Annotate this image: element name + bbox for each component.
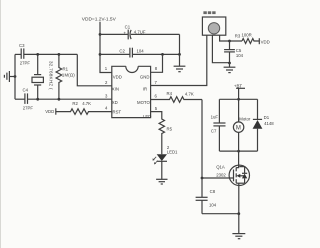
node C5 top: [228, 40, 231, 43]
IR receiver: [202, 11, 225, 35]
svg-text:104: 104: [209, 203, 217, 208]
node crystal bottom: [36, 98, 39, 101]
diode D1: [253, 99, 275, 151]
node gnd join: [178, 53, 181, 56]
resistor R2: [56, 101, 112, 114]
svg-text:Q1A: Q1A: [216, 164, 225, 169]
svg-text:M: M: [236, 126, 241, 132]
svg-text:R1: R1: [63, 66, 69, 71]
svg-text:XIN: XIN: [112, 87, 119, 92]
node C5 bottom: [228, 62, 231, 65]
svg-text:100R: 100R: [242, 33, 252, 38]
svg-text:4.7UF: 4.7UF: [134, 29, 146, 34]
wire motor bottom rail: [219, 150, 257, 152]
ground (C1 C2): [174, 54, 186, 71]
capacitor C3: [19, 43, 30, 66]
resistor R4: [151, 91, 203, 102]
node motor bottom: [237, 150, 240, 153]
svg-text:VDD: VDD: [45, 109, 54, 114]
svg-text:8: 8: [155, 66, 158, 71]
ground (C5): [224, 63, 236, 73]
node R1 bottom: [58, 98, 61, 101]
wire xin drop: [77, 54, 112, 85]
wire receiver leg3: [220, 35, 242, 41]
wire pin8 link: [151, 54, 163, 72]
wire bottom osc: [15, 98, 25, 100]
svg-text:C2: C2: [119, 48, 125, 53]
svg-text:4.7K: 4.7K: [82, 101, 91, 106]
capacitor C4: [23, 87, 34, 110]
wire receiver leg2: [212, 35, 229, 63]
LED LED1: [153, 145, 178, 179]
svg-text:MOTO: MOTO: [137, 100, 150, 105]
svg-text:6: 6: [155, 93, 158, 98]
svg-text:C8: C8: [210, 189, 216, 194]
svg-text:GND: GND: [140, 74, 150, 79]
svg-text:VDD: VDD: [113, 74, 122, 79]
svg-text:VDD=1.2V-1.5V: VDD=1.2V-1.5V: [82, 17, 117, 23]
capacitor C1: [100, 24, 180, 39]
ground (Q1 source): [232, 214, 245, 239]
wire C1 to gnd: [179, 34, 181, 54]
left edge border: [0, 0, 2, 248]
svg-text:4: 4: [105, 106, 108, 111]
node C1 tap: [99, 33, 102, 36]
svg-text:1uF: 1uF: [211, 115, 219, 120]
svg-text:Motor: Motor: [239, 116, 251, 121]
power VDD (R3): [259, 38, 269, 44]
svg-text:27PF: 27PF: [23, 105, 34, 110]
svg-text:27PF: 27PF: [20, 61, 31, 66]
svg-text:VDD: VDD: [261, 39, 270, 44]
svg-text:LED1: LED1: [167, 150, 178, 155]
svg-text:R2: R2: [72, 101, 78, 106]
transistor Q1A: [216, 151, 249, 185]
wire VDD rail: [100, 22, 112, 73]
svg-text:1M(Ω): 1M(Ω): [62, 73, 75, 78]
svg-text:5: 5: [155, 106, 158, 111]
svg-text:C4: C4: [23, 87, 29, 92]
node R1 top: [58, 53, 61, 56]
svg-text:LED: LED: [143, 114, 151, 119]
svg-text:7: 7: [155, 80, 158, 85]
svg-text:1: 1: [105, 66, 108, 71]
node motor top: [237, 98, 240, 101]
node gate tee: [201, 177, 204, 180]
node crystal top: [36, 53, 39, 56]
capacitor C5: [224, 41, 244, 63]
node source bottom: [237, 212, 240, 215]
svg-text:32.768KHZ (: 32.768KHZ (: [49, 61, 54, 90]
resistor R5: [151, 112, 173, 155]
svg-text:R3: R3: [235, 34, 241, 39]
wire top osc: [15, 53, 21, 55]
svg-text:104: 104: [236, 53, 244, 58]
resistor R3: [235, 33, 259, 44]
capacitor C2: [100, 48, 180, 58]
svg-text:RST: RST: [113, 109, 122, 114]
motor M: [233, 99, 250, 151]
wire source down: [238, 183, 240, 213]
svg-text:XD: XD: [112, 100, 118, 105]
ground (oscillator, sideways): [4, 71, 15, 82]
svg-text:3: 3: [105, 93, 108, 98]
capacitor C8: [196, 178, 217, 214]
svg-text:C3: C3: [19, 43, 25, 48]
wire bottom link: [202, 213, 239, 215]
svg-text:4148: 4148: [264, 121, 274, 126]
wire receiver leg1 to pin7: [151, 35, 207, 86]
capacitor C7: [211, 99, 226, 151]
node C2 tap: [99, 53, 102, 56]
svg-text:4.7K: 4.7K: [185, 91, 194, 96]
resistor R1: [56, 54, 75, 99]
ground (LED1): [156, 179, 167, 184]
wire motor top rail: [219, 98, 257, 100]
power VDD (RST): [45, 108, 56, 114]
battery +BT: [234, 84, 245, 100]
node osc ground tap: [14, 75, 17, 78]
wire gate drop: [202, 100, 234, 179]
svg-text:R4: R4: [167, 91, 173, 96]
wire left rail: [14, 54, 16, 99]
crystal Y1: [32, 54, 54, 99]
svg-text:2: 2: [105, 80, 108, 85]
svg-text:C1: C1: [125, 24, 131, 29]
svg-text:C7: C7: [211, 128, 217, 133]
svg-text:IR: IR: [143, 86, 147, 91]
op-amp U1 (MCU DIP-8 outline): [112, 66, 152, 119]
node pin8 tap: [161, 53, 164, 56]
svg-text:D1: D1: [264, 115, 270, 120]
svg-text:2302: 2302: [216, 172, 226, 177]
svg-text:104: 104: [137, 48, 145, 53]
svg-text:R5: R5: [167, 126, 173, 131]
